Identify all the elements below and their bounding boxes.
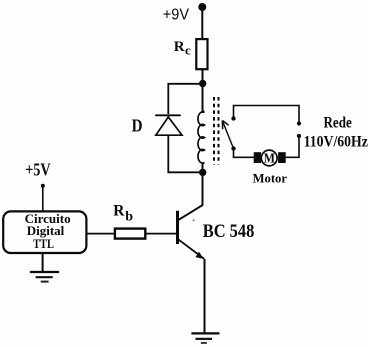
wire +5V to box	[42, 186, 44, 212]
relay coil L1	[198, 84, 204, 173]
resistor Rb	[115, 229, 145, 239]
label Rc	[174, 39, 191, 57]
node mains terminal upper	[297, 121, 301, 125]
node junction bottom (coil/diode)	[199, 169, 206, 176]
relay contact switch	[222, 106, 299, 151]
ground (emitter)	[191, 333, 219, 343]
svg-text:+9V: +9V	[163, 6, 190, 23]
node mains terminal lower	[297, 134, 301, 138]
wire box to ground	[42, 254, 44, 272]
label Rb	[113, 202, 133, 224]
block Circuito Digital TTL	[3, 211, 86, 253]
svg-text:110V/60Hz: 110V/60Hz	[304, 133, 368, 150]
transistor Q1 BC548	[176, 205, 204, 259]
wire coil to collector	[202, 172, 204, 205]
wire diode anode to bottom junction	[168, 135, 202, 172]
svg-text:R: R	[113, 202, 125, 219]
svg-text:D: D	[132, 115, 143, 135]
wire Rc to collector node	[202, 69, 204, 84]
svg-text:b: b	[125, 210, 133, 225]
wire switch to motor	[234, 149, 255, 158]
resistor Rc	[196, 39, 207, 69]
stray mark	[193, 219, 195, 221]
diode D	[155, 115, 182, 135]
motor M	[254, 150, 286, 167]
wire emitter to ground	[204, 259, 206, 334]
ground (TTL box)	[30, 272, 59, 282]
svg-text:BC 548: BC 548	[203, 221, 255, 242]
wire Rb to base	[146, 233, 176, 235]
svg-text:Motor: Motor	[253, 171, 288, 185]
svg-text:Rede: Rede	[324, 115, 352, 132]
wire box to Rb	[87, 233, 115, 235]
wire junction to diode branch	[168, 84, 202, 114]
svg-text:c: c	[185, 42, 191, 57]
svg-text:TTL: TTL	[33, 236, 54, 251]
svg-text:R: R	[174, 39, 185, 55]
node +9V terminal dot	[198, 3, 206, 11]
node junction top (coil/diode)	[199, 80, 206, 87]
relay mechanical link dashed lines	[214, 97, 219, 165]
wire motor to mains lower terminal	[286, 136, 299, 157]
node +5V terminal dot	[41, 184, 45, 188]
svg-text:+5V: +5V	[25, 159, 50, 179]
svg-text:M: M	[264, 152, 275, 167]
wire +9V to Rc	[201, 7, 203, 40]
